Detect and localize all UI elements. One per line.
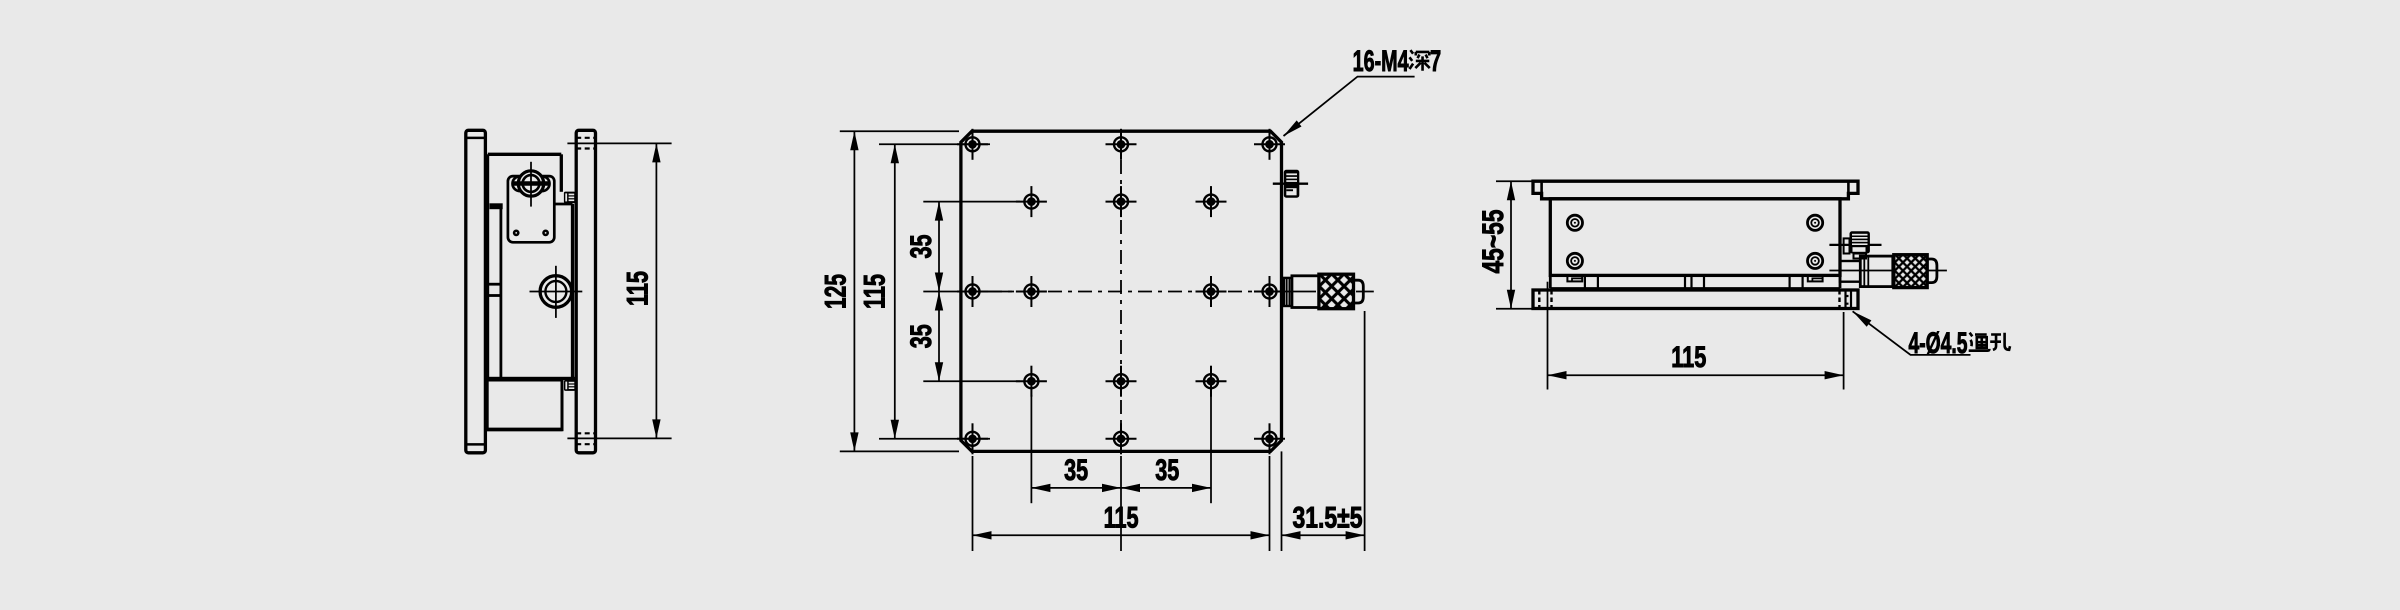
top platform plate (edge-on) <box>576 130 595 453</box>
base block <box>486 377 575 430</box>
svg-text:31.5±5: 31.5±5 <box>1293 502 1363 535</box>
svg-text:35: 35 <box>905 324 938 348</box>
svg-text:7: 7 <box>1430 45 1441 78</box>
CJK glyph kong (hole) <box>1990 333 2010 350</box>
svg-text:115: 115 <box>1104 502 1139 535</box>
roller rail band <box>1550 275 1840 288</box>
micrometer head (top view) <box>1260 274 1374 309</box>
side clamp knob (top view) <box>1273 170 1308 198</box>
stage body side profile <box>488 154 573 377</box>
dimension 45~55 <box>1496 181 1534 309</box>
left mounting plate (edge-on) <box>466 130 486 453</box>
motor clamp bracket <box>508 176 554 242</box>
dimension 125 <box>840 131 959 451</box>
svg-text:4-Ø4.5: 4-Ø4.5 <box>1909 327 1968 360</box>
bracket screw holes <box>513 230 549 237</box>
dimension 115 (left view) <box>567 143 671 438</box>
hidden hole dashes <box>576 138 595 444</box>
svg-text:35: 35 <box>1155 454 1179 487</box>
base through holes 4-D4.5 <box>1539 290 1839 309</box>
bracket shaft circle <box>513 162 549 207</box>
top platform plate <box>1533 181 1858 199</box>
dimension 35 / 35 (bottom horizontal) <box>1031 395 1211 503</box>
svg-text:115: 115 <box>859 274 892 309</box>
base plate <box>1533 290 1858 309</box>
bottom clamp knob <box>564 380 576 391</box>
micrometer head (front view) <box>1829 255 1947 288</box>
svg-text:45~55: 45~55 <box>1477 210 1510 274</box>
top clamp knob <box>564 192 576 204</box>
side center hole <box>530 266 583 318</box>
dimension 35 / 35 (vertical) <box>923 202 1020 382</box>
CJK glyph tong (through) <box>1969 333 1990 351</box>
svg-text:35: 35 <box>1064 454 1088 487</box>
svg-text:115: 115 <box>1671 341 1706 374</box>
center lines (dash-dot) <box>988 160 1254 426</box>
svg-text:125: 125 <box>819 274 852 309</box>
socket screws <box>1567 215 1822 268</box>
top plate 125x125 <box>961 131 1282 451</box>
carriage body <box>1550 199 1840 276</box>
dimension 115 (bottom horizontal) <box>973 456 1270 551</box>
svg-text:115: 115 <box>622 271 655 306</box>
dimension 115 (front view) <box>1548 282 1844 390</box>
CJK glyph shen (deep) <box>1410 50 1430 71</box>
svg-text:16-M4: 16-M4 <box>1353 45 1409 78</box>
svg-text:35: 35 <box>905 235 938 259</box>
16-M4 threaded holes <box>957 129 1285 455</box>
callout 4-D4.5 through hole <box>1853 311 1971 355</box>
dimension 115 (vertical) <box>879 144 990 439</box>
callout 16-M4 deep 7 <box>1284 77 1415 136</box>
dimension 31.5±5 <box>1282 311 1365 551</box>
side clamp knob (front view) <box>1829 231 1881 258</box>
